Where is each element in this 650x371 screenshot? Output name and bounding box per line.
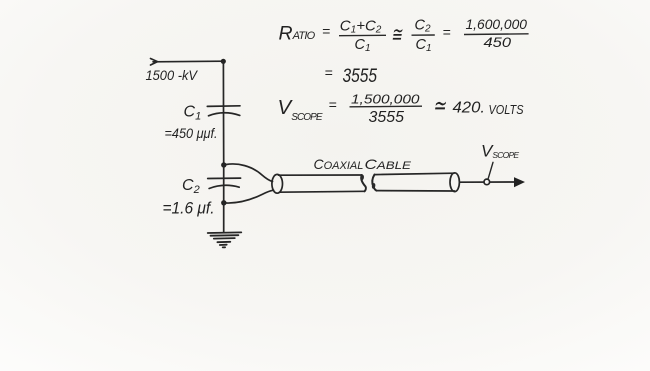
svg-text:1,500,000: 1,500,000 <box>351 92 420 107</box>
equation =3555 <box>325 65 378 87</box>
svg-text:3555: 3555 <box>369 109 405 126</box>
ground <box>208 232 242 247</box>
svg-text:VOLTS: VOLTS <box>489 103 525 117</box>
svg-text:1,600,000: 1,600,000 <box>466 16 528 32</box>
wire C1 to C2 tap <box>223 106 225 165</box>
equation ratio <box>279 16 529 54</box>
node Vscope circle <box>484 179 490 185</box>
svg-text:C1+C2: C1+C2 <box>340 17 382 35</box>
wire tap to coax top <box>226 164 273 182</box>
equation Vscope <box>278 92 525 127</box>
svg-text:=450 μμf.: =450 μμf. <box>165 125 218 141</box>
coaxial cable segment 2 <box>371 173 459 192</box>
capacitor C2 <box>208 178 241 188</box>
node tap bottom of C2 <box>221 200 226 205</box>
wire input horizontal <box>153 60 223 63</box>
wire tap to coax bottom <box>226 190 274 203</box>
svg-text:450: 450 <box>484 34 512 50</box>
wire Vscope tick <box>488 162 493 178</box>
wire vertical junction to C1 <box>222 61 224 106</box>
node tap top of C2 <box>221 162 226 167</box>
svg-text:≅: ≅ <box>391 23 403 46</box>
svg-text:=: = <box>322 23 330 39</box>
svg-text:420.: 420. <box>453 99 486 116</box>
wire C2 to ground <box>223 165 225 232</box>
svg-text:=: = <box>443 24 451 40</box>
input arrow <box>151 59 158 66</box>
svg-text:3555: 3555 <box>343 65 378 87</box>
svg-text:=1.6 μf.: =1.6 μf. <box>163 199 215 218</box>
output arrow <box>515 178 524 187</box>
svg-text:=: = <box>325 65 333 81</box>
capacitor C1 <box>207 106 240 116</box>
wire coax to output <box>459 181 514 183</box>
node junction top <box>221 59 226 64</box>
svg-text:=: = <box>329 97 337 113</box>
svg-text:≃: ≃ <box>433 92 447 119</box>
svg-text:1500 -kV: 1500 -kV <box>146 67 199 83</box>
coaxial cable segment 1 <box>272 174 366 193</box>
